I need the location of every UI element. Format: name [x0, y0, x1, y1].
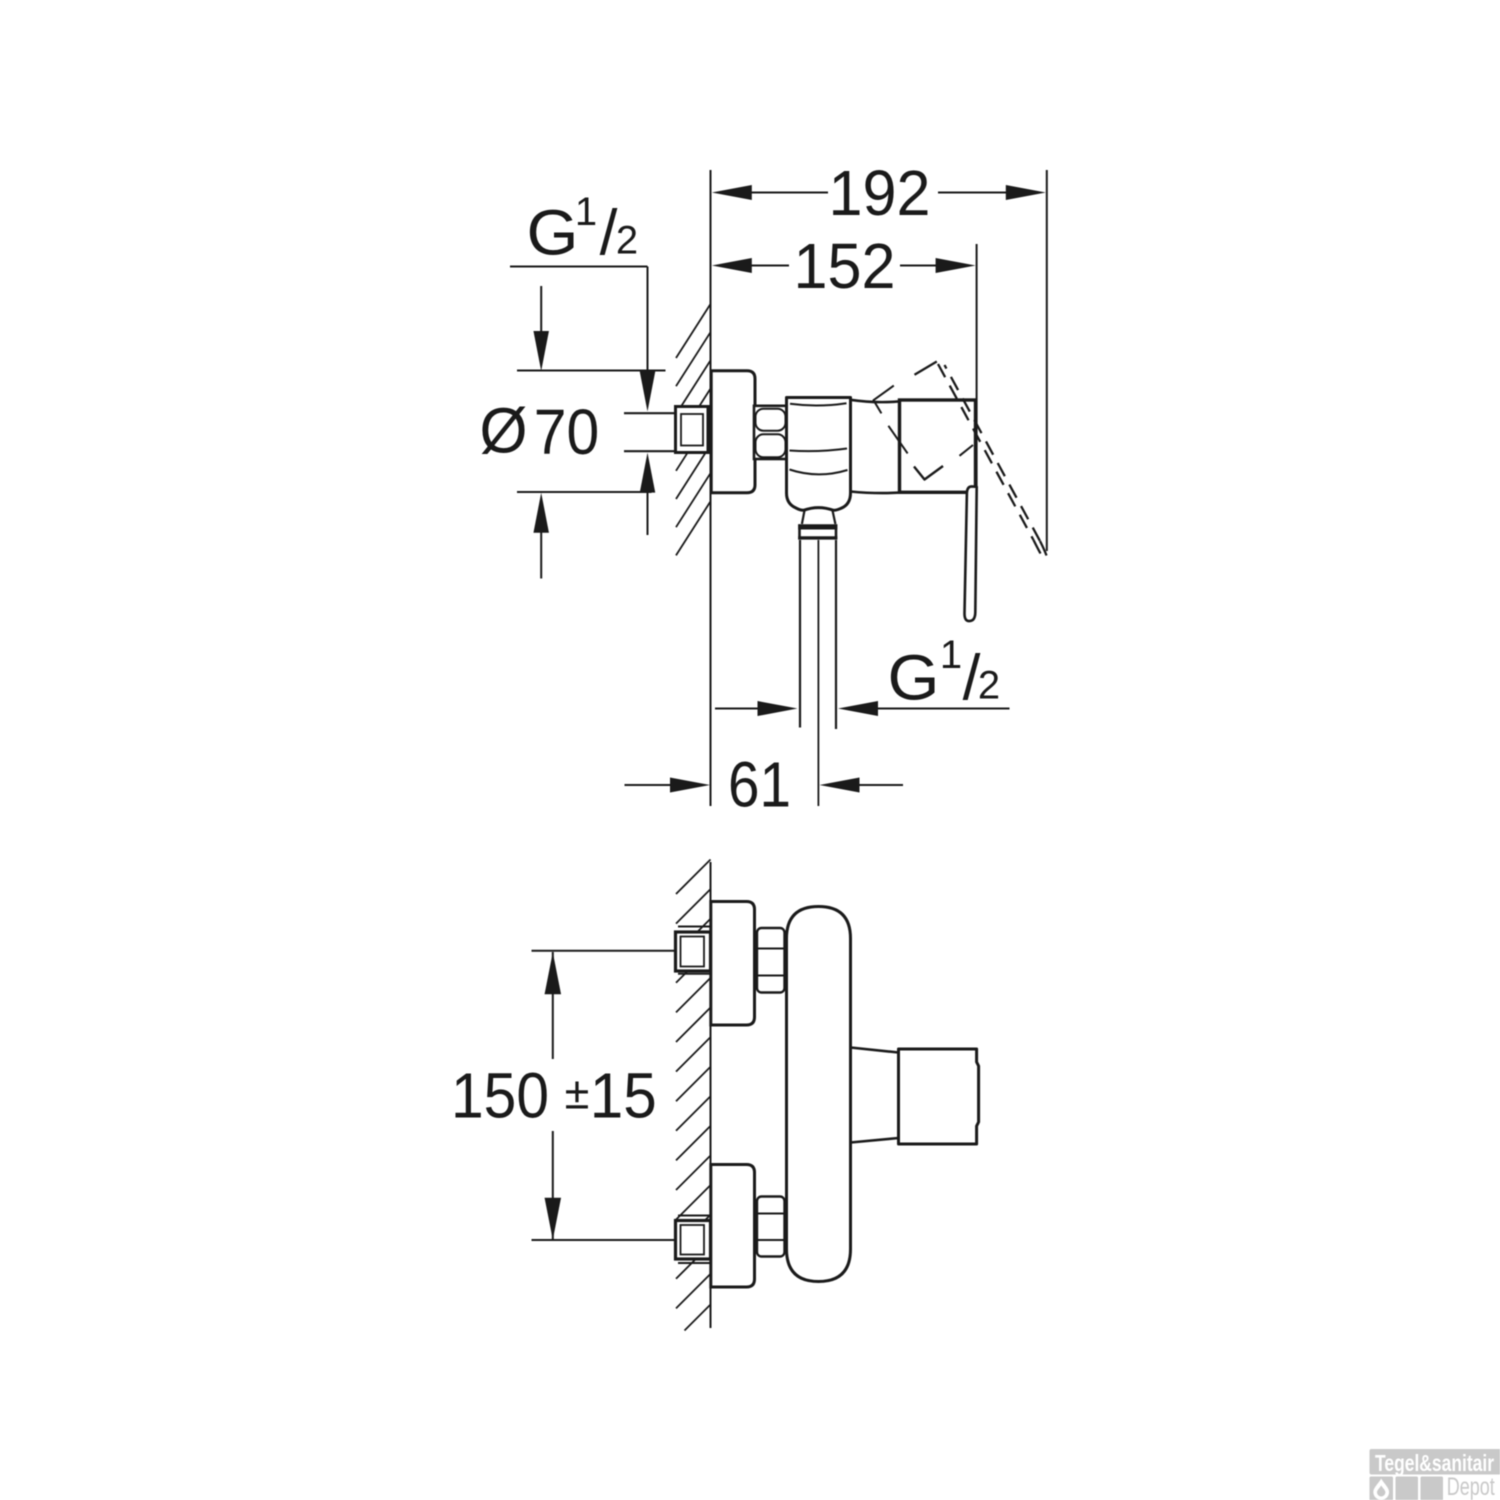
escutcheon (lower, bottom figure) — [711, 1165, 755, 1288]
hose coupling collar — [798, 511, 837, 540]
handle hub block (top figure) — [900, 400, 976, 492]
label G 1/2 thread (hose union) — [715, 633, 1010, 716]
svg-text:150: 150 — [451, 1060, 549, 1132]
wall hatching (top figure) — [676, 304, 711, 555]
svg-text:61: 61 — [728, 749, 791, 821]
svg-text:2: 2 — [616, 219, 638, 263]
svg-text:2: 2 — [978, 664, 1000, 708]
wall line (top figure) — [710, 170, 712, 806]
square union fitting (upper, bottom figure) — [676, 927, 711, 974]
svg-text:152: 152 — [794, 230, 896, 302]
lever handle raised position (dashed) — [915, 362, 1047, 556]
svg-text:±: ± — [565, 1068, 590, 1119]
dimension 152 (wall to handle face) — [712, 230, 977, 487]
lever handle blade (down position) — [964, 486, 976, 621]
label G 1/2 thread (wall union, top figure) — [510, 190, 655, 535]
svg-text:Ø: Ø — [480, 395, 528, 467]
escutcheon (upper, bottom figure) — [711, 902, 755, 1026]
svg-text:192: 192 — [829, 157, 931, 229]
shower hose (with centre line) — [800, 540, 836, 806]
cartridge housing (top figure) — [851, 400, 901, 493]
dimension diameter 70 (escutcheon) — [480, 286, 666, 579]
dimension 61 (wall to hose centre) — [625, 749, 904, 821]
svg-text:Depot: Depot — [1447, 1473, 1495, 1500]
faucet body (front view capsule) — [787, 907, 851, 1282]
square union fitting (lower, bottom figure) — [676, 1216, 711, 1264]
square union fitting (top figure) — [676, 407, 709, 453]
handle end cap (front view) — [899, 1049, 979, 1144]
svg-text:15: 15 — [590, 1060, 657, 1132]
svg-text:G: G — [527, 197, 579, 269]
svg-text:70: 70 — [534, 396, 600, 468]
svg-text:1: 1 — [575, 190, 597, 234]
hex connection nut (lower, bottom figure) — [757, 1197, 785, 1257]
svg-text:Tegel&sanitair: Tegel&sanitair — [1375, 1450, 1494, 1476]
supply pipe stub (G1/2 nipple) — [624, 413, 710, 451]
svg-text:1: 1 — [940, 633, 962, 677]
escutcheon / wall flange (top figure) — [711, 371, 755, 493]
sketch marks (hand-drawn artifacts) — [874, 386, 974, 480]
dimension 150 plus-minus 15 (connection spacing) — [451, 951, 675, 1240]
watermark Tegel&sanitair Depot — [1370, 1449, 1500, 1500]
hex connection nut (top figure) — [754, 406, 787, 459]
dimension 192 (wall to lever tip) — [712, 157, 1047, 551]
valve body (top figure) — [787, 398, 851, 511]
hex connection nut (upper, bottom figure) — [757, 928, 785, 993]
cartridge cone (front view) — [851, 1048, 899, 1143]
svg-text:G: G — [888, 642, 940, 714]
wall line (bottom figure) — [710, 862, 712, 1328]
wall hatching (bottom figure) — [676, 860, 711, 1331]
